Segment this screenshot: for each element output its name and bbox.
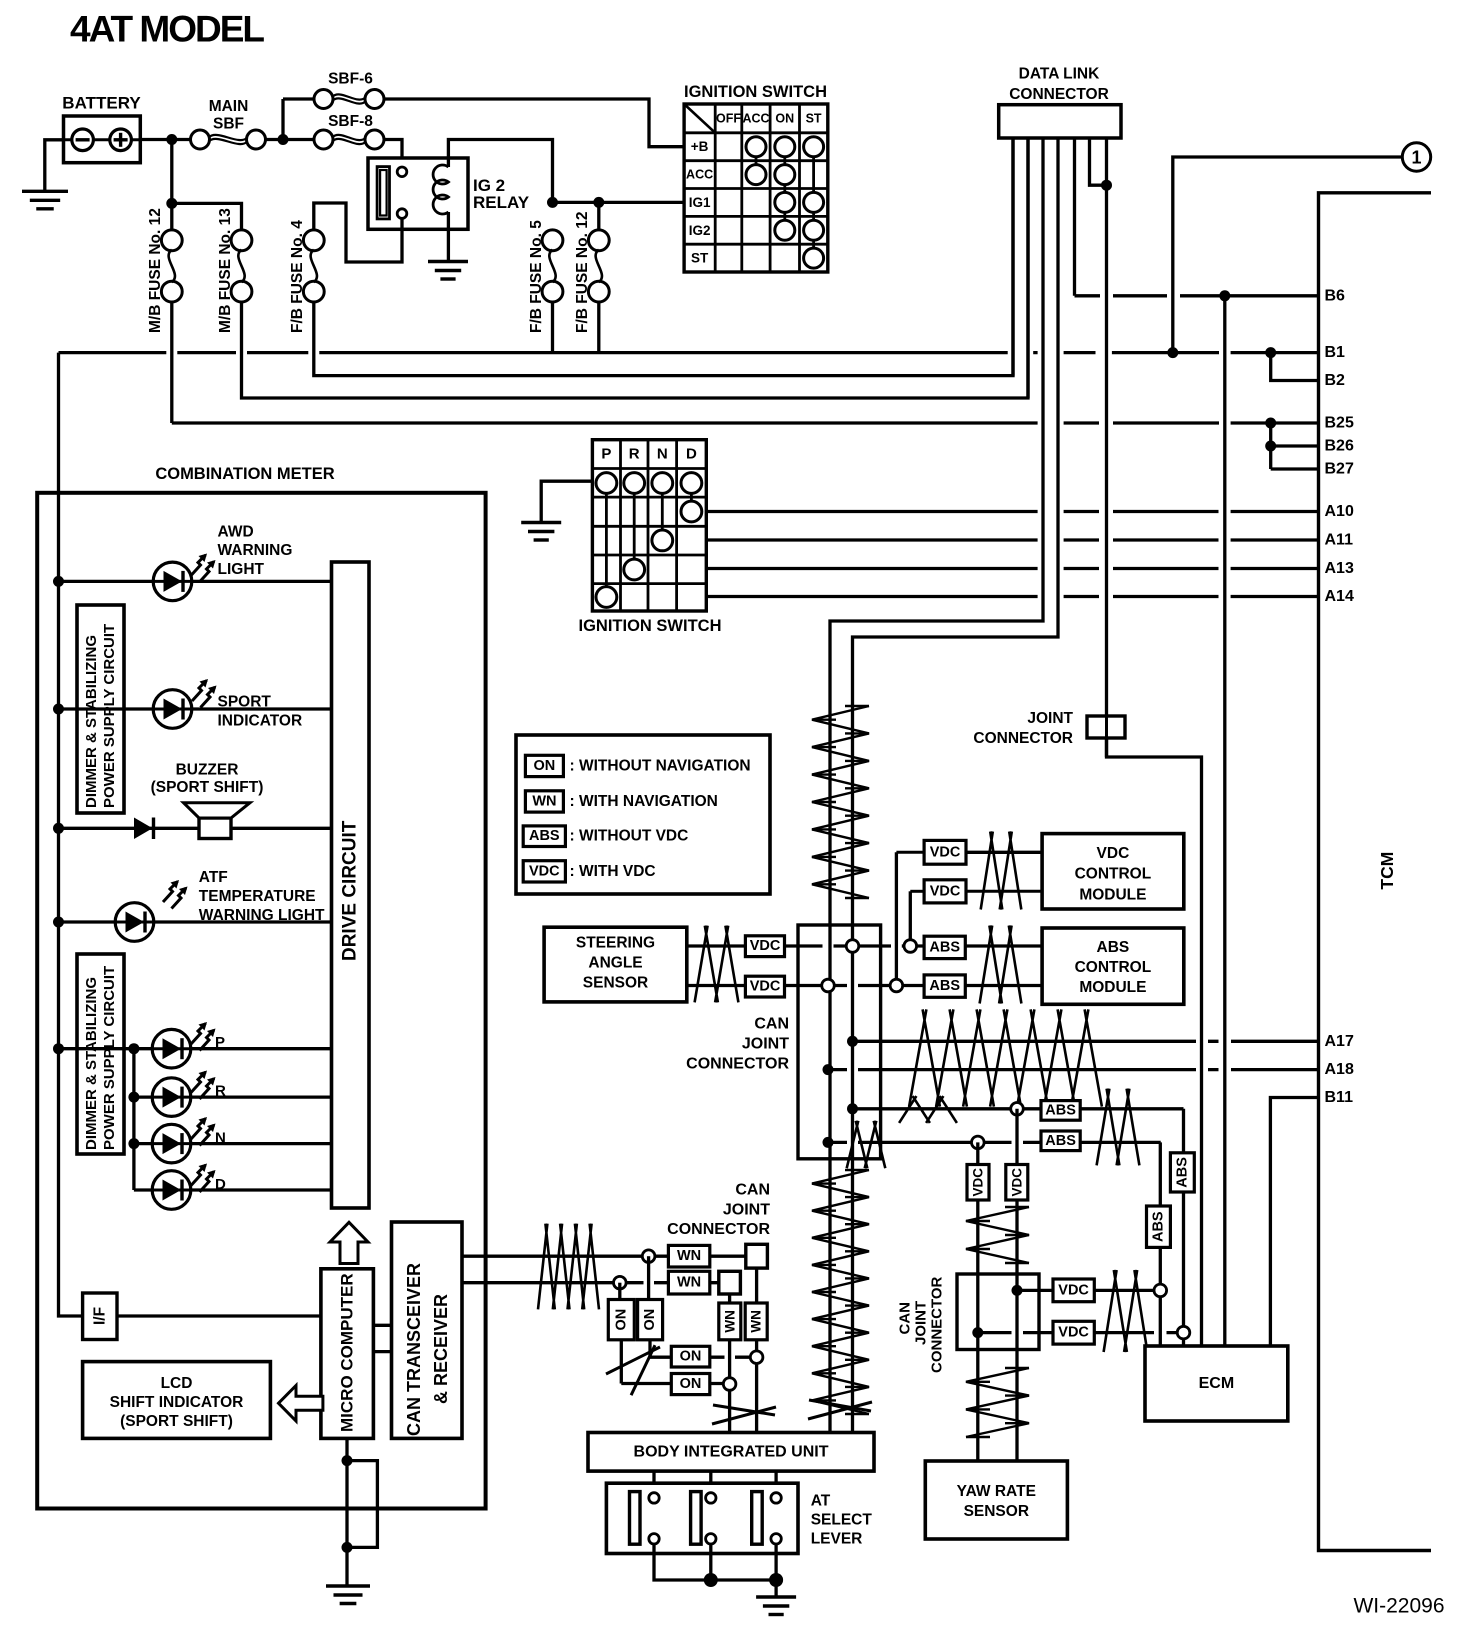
- wire SAS row1: [687, 944, 1042, 947]
- twisted pair yaw lower: [966, 1368, 1029, 1437]
- svg-text:BATTERY: BATTERY: [62, 94, 141, 113]
- wire M/B fuse No.13 to DLC: [242, 138, 1029, 398]
- svg-text:MICRO COMPUTER: MICRO COMPUTER: [338, 1273, 357, 1432]
- wire riser VDC row b: [909, 891, 912, 946]
- wire SBF-6 to ignition switch +B: [384, 99, 684, 147]
- junction F/B fuse No.5 tap: [547, 197, 558, 208]
- svg-text:VDC: VDC: [750, 938, 781, 954]
- wire SPORT row: [59, 707, 332, 710]
- LED AWD warning light: [153, 562, 192, 601]
- WN tag row1: [668, 1245, 709, 1267]
- VDC control module box: [1042, 834, 1184, 909]
- legend box: [516, 735, 770, 894]
- svg-text:ABS: ABS: [1097, 939, 1130, 956]
- ignition switch header diagonal: [684, 104, 715, 133]
- svg-text:A18: A18: [1325, 1061, 1354, 1078]
- junction AWD row: [53, 576, 64, 587]
- svg-text:F/B FUSE No. 5: F/B FUSE No. 5: [528, 220, 545, 333]
- twisted pair VDC ECM rows: [1104, 1270, 1148, 1352]
- DLC pin2 wire: [1026, 138, 1029, 398]
- twisted pair row5 left: [899, 1096, 957, 1123]
- twisted pair row6 left: [847, 1121, 886, 1168]
- wire square2 vertical to BIU: [728, 1294, 731, 1433]
- node 1 circle: [1402, 143, 1430, 171]
- DLC pin6 wire: [1090, 138, 1107, 185]
- TCM connector line: [1319, 193, 1432, 1551]
- svg-text:P: P: [601, 446, 611, 463]
- node ON stub row1: [642, 1250, 655, 1263]
- wire BIU to lever 2: [709, 1471, 712, 1493]
- wire I/F to micro computer: [117, 1314, 321, 1317]
- lever contacts top: [649, 1493, 659, 1503]
- dimmer & stabilizing power supply circuit box 1: [77, 605, 124, 813]
- wire ON stub 1: [647, 1256, 650, 1299]
- wire CAN-L vertical: [851, 704, 854, 1432]
- svg-text:DIMMER & STABILIZING: DIMMER & STABILIZING: [83, 977, 100, 1150]
- svg-text:ABS: ABS: [929, 978, 960, 994]
- wire square1 vertical to BIU: [755, 1268, 758, 1432]
- svg-text:JOINT: JOINT: [723, 1202, 770, 1219]
- svg-text:YAW RATE: YAW RATE: [957, 1483, 1036, 1500]
- node row1 square1: [750, 1351, 763, 1364]
- relay IG 2 box: [368, 158, 468, 229]
- node row5 ECM circle: [1177, 1326, 1190, 1339]
- svg-text:ON: ON: [642, 1309, 658, 1331]
- DLC pin1 wire: [1011, 138, 1014, 376]
- body integrated unit box: [588, 1433, 874, 1472]
- svg-text:IGNITION SWITCH: IGNITION SWITCH: [579, 617, 722, 635]
- wire row6 to ECM: [1159, 1142, 1162, 1346]
- arrows ATF LED: [163, 882, 178, 903]
- ABS tag vertical row5: [1170, 1153, 1194, 1192]
- arrow LCD (left): [279, 1386, 323, 1422]
- svg-text:CONTROL: CONTROL: [1075, 866, 1152, 883]
- junction sub-bus R: [128, 1092, 139, 1103]
- svg-text:STEERING: STEERING: [576, 935, 655, 952]
- junction ATF row: [53, 917, 64, 928]
- arrows N LED: [191, 1119, 206, 1140]
- junction row6 on CAN-H: [823, 1137, 834, 1148]
- ignition switch column links: [755, 147, 758, 175]
- junction ground loop top: [342, 1455, 353, 1466]
- junction B6/ECM branch: [1219, 290, 1230, 301]
- svg-text:VDC: VDC: [1058, 1282, 1089, 1298]
- svg-text:TCM: TCM: [1377, 852, 1397, 890]
- svg-text:ON: ON: [613, 1309, 629, 1331]
- svg-text:P: P: [215, 1034, 225, 1051]
- svg-text:: WITHOUT NAVIGATION: : WITHOUT NAVIGATION: [570, 758, 751, 775]
- drive circuit box: [332, 562, 370, 1208]
- svg-text:ON: ON: [680, 1376, 702, 1392]
- svg-text:B27: B27: [1325, 461, 1354, 478]
- svg-text:ON: ON: [534, 758, 556, 774]
- arrows AWD LED: [191, 555, 206, 576]
- junction DLC pin6/pin7: [1101, 180, 1112, 191]
- battery positive terminal: [110, 129, 132, 151]
- svg-text:R: R: [629, 446, 640, 463]
- wire B1 line: [59, 351, 1319, 354]
- svg-text:ABS: ABS: [1150, 1211, 1166, 1242]
- svg-text:SENSOR: SENSOR: [583, 975, 648, 992]
- svg-text:R: R: [215, 1083, 226, 1100]
- junction A18 on CAN-H: [823, 1064, 834, 1075]
- wire B27 line: [1271, 467, 1319, 470]
- junction A17 on CAN-L: [847, 1036, 858, 1047]
- VDC tag vertical right: [1006, 1165, 1028, 1201]
- VDC tag SAS row1: [745, 936, 784, 957]
- wire row5 to ECM: [1182, 1109, 1185, 1346]
- junction B25 branch: [1265, 418, 1276, 429]
- svg-text:N: N: [657, 446, 668, 463]
- LED P: [152, 1029, 191, 1068]
- wire A11 line: [706, 538, 1318, 541]
- svg-text:COMBINATION METER: COMBINATION METER: [155, 465, 334, 483]
- node row2 square2: [723, 1378, 736, 1391]
- wire B25 line: [172, 421, 1319, 424]
- ON tag vertical 1: [608, 1300, 634, 1340]
- ABS tag vertical row6: [1147, 1206, 1171, 1247]
- ignition switch contacts IG1 row: [775, 192, 795, 212]
- svg-text:ABS: ABS: [1045, 1133, 1076, 1149]
- DLC pin5 wire to B6: [1073, 138, 1076, 296]
- svg-text:CAN: CAN: [897, 1302, 914, 1335]
- dimmer & stabilizing power supply circuit box 2: [77, 954, 124, 1154]
- fuse M/B No.13: [231, 230, 252, 251]
- ground inhibitor: [521, 521, 561, 524]
- wire SBF-8 to relay contact: [384, 140, 402, 168]
- ABS tag row5: [1041, 1101, 1080, 1121]
- svg-text:CONNECTOR: CONNECTOR: [973, 730, 1073, 747]
- svg-text:ST: ST: [691, 251, 709, 266]
- lever slot 3: [752, 1492, 763, 1545]
- svg-text:B6: B6: [1325, 287, 1346, 304]
- wire battery internal: [64, 138, 141, 141]
- svg-text:A10: A10: [1325, 503, 1354, 520]
- svg-text:M/B FUSE No. 13: M/B FUSE No. 13: [217, 208, 234, 333]
- VDC tag vertical left: [967, 1165, 989, 1201]
- svg-text:VDC: VDC: [1058, 1325, 1089, 1341]
- node row6 VDC stub: [972, 1136, 985, 1149]
- wire ABS row5: [853, 1107, 1184, 1110]
- wire ON1 to row2: [620, 1340, 623, 1384]
- wire relay coil to IG1 line: [448, 140, 552, 203]
- svg-text:VDC: VDC: [930, 883, 961, 899]
- svg-text:CONNECTOR: CONNECTOR: [929, 1276, 946, 1373]
- wire joint connector to ECM: [1107, 738, 1202, 1346]
- svg-text:WI-22096: WI-22096: [1353, 1595, 1444, 1618]
- fuse F/B No.5: [542, 230, 563, 251]
- ignition switch contacts ST row: [804, 248, 824, 268]
- DLC pin7 wire: [1105, 138, 1108, 757]
- wire IG1 feed line: [553, 201, 685, 204]
- VDC tag module row a: [924, 840, 966, 864]
- svg-text:CONNECTOR: CONNECTOR: [686, 1056, 789, 1073]
- wire battery to ground: [45, 140, 64, 192]
- wire ECM branch vertical: [1223, 296, 1226, 1346]
- data link connector box: [999, 105, 1121, 138]
- fuse SBF-8: [314, 130, 333, 149]
- ABS control module box: [1042, 928, 1184, 1004]
- wire P row: [59, 1047, 332, 1050]
- junction sub-bus N: [128, 1138, 139, 1149]
- svg-text:ANGLE: ANGLE: [588, 955, 642, 972]
- junction M/B fuse No.13 tap: [166, 198, 177, 209]
- relay contact terminal top: [397, 167, 407, 177]
- svg-text:CAN: CAN: [735, 1182, 770, 1199]
- svg-text:SELECT: SELECT: [811, 1512, 873, 1529]
- arrow drive circuit (up): [330, 1222, 368, 1263]
- svg-text:VDC: VDC: [1009, 1168, 1024, 1197]
- svg-text:: WITHOUT VDC: : WITHOUT VDC: [570, 828, 689, 845]
- legend ABS box: [523, 826, 565, 847]
- twisted pair CAN lower: [812, 1170, 869, 1414]
- wire VDC row to ECM 1: [1017, 1289, 1154, 1292]
- wire A17 line: [853, 1040, 1319, 1043]
- junction joint2 row2: [972, 1327, 983, 1338]
- svg-text:TEMPERATURE: TEMPERATURE: [199, 888, 316, 905]
- wire B25-B26-B27 branch: [1269, 423, 1272, 469]
- wire buzzer row: [59, 827, 332, 830]
- ground relay coil: [428, 260, 468, 263]
- legend VDC box: [523, 861, 565, 882]
- fuse M/B No.12: [161, 230, 182, 251]
- wire B26 line: [1271, 444, 1319, 447]
- svg-text:1: 1: [1411, 148, 1421, 168]
- svg-text:OFF: OFF: [716, 111, 741, 125]
- ON tag row1: [671, 1346, 710, 1367]
- relay coil: [433, 165, 448, 214]
- svg-text:VDC: VDC: [1097, 845, 1130, 862]
- junction F/B fuse No.12 tap: [593, 197, 604, 208]
- arrows SPORT LED: [192, 681, 207, 702]
- fuse MAIN SBF: [191, 130, 210, 149]
- WN tag row2: [668, 1271, 709, 1294]
- junction SBF-6/SBF-8 split: [278, 134, 289, 145]
- wire B2 branch: [1271, 353, 1319, 381]
- wire D row: [134, 1188, 332, 1191]
- DLC pin3 wire to CAN-H: [830, 138, 1043, 704]
- relay contact bar: [377, 167, 389, 219]
- svg-text:A17: A17: [1325, 1033, 1354, 1050]
- svg-text:B26: B26: [1325, 438, 1354, 455]
- wire relay contact to fuse No.4: [314, 203, 402, 262]
- svg-text:BODY INTEGRATED UNIT: BODY INTEGRATED UNIT: [634, 1444, 829, 1461]
- svg-text:VDC: VDC: [750, 979, 781, 995]
- wire SAS row2: [687, 984, 1042, 987]
- svg-text:WN: WN: [749, 1310, 764, 1333]
- svg-text:CAN: CAN: [754, 1016, 789, 1033]
- svg-text:LEVER: LEVER: [811, 1531, 863, 1548]
- svg-text:4AT MODEL: 4AT MODEL: [70, 9, 264, 50]
- ignition switch (inhibitor) grid: [592, 440, 706, 611]
- svg-text:IG2: IG2: [689, 223, 711, 238]
- svg-text:(SPORT SHIFT): (SPORT SHIFT): [120, 1413, 233, 1430]
- svg-text:B11: B11: [1325, 1089, 1354, 1106]
- svg-text:DATA LINK: DATA LINK: [1019, 65, 1100, 82]
- wire inhibitor common to ground: [541, 481, 592, 522]
- wire A10 line: [706, 510, 1318, 513]
- wire yaw right vertical: [1015, 1109, 1018, 1461]
- twisted pair ABS module: [980, 926, 1022, 1004]
- svg-text:POWER SUPPLY CIRCUIT: POWER SUPPLY CIRCUIT: [101, 624, 118, 808]
- wire B6 line: [1075, 294, 1319, 297]
- buzzer speaker: [199, 818, 231, 839]
- AT select lever box: [606, 1483, 798, 1553]
- twisted pair rows56 right: [1097, 1089, 1140, 1166]
- node riser row1: [904, 940, 917, 953]
- wire A18 line: [828, 1068, 1319, 1071]
- wire relay coil to ground: [447, 212, 450, 262]
- wire VDC row to ECM 2: [978, 1331, 1177, 1334]
- relay contact terminal bottom: [397, 209, 407, 219]
- svg-text:M/B FUSE No. 12: M/B FUSE No. 12: [147, 208, 164, 333]
- fuse F/B No.4: [303, 230, 324, 251]
- node SAS row2 / CAN-H: [822, 979, 835, 992]
- wire micro computer to CAN transceiver 1: [373, 1324, 391, 1327]
- svg-text:JOINT: JOINT: [1027, 710, 1073, 727]
- svg-text:DIMMER & STABILIZING: DIMMER & STABILIZING: [83, 635, 100, 808]
- lever contacts bottom: [649, 1534, 659, 1544]
- svg-text:AT: AT: [811, 1492, 831, 1509]
- LED SPORT indicator: [153, 690, 192, 729]
- junction battery output: [166, 134, 177, 145]
- VDC tag ECM row2: [1053, 1321, 1094, 1344]
- legend WN box: [525, 791, 563, 812]
- svg-text:MAIN: MAIN: [209, 98, 249, 115]
- lever slot 2: [691, 1492, 702, 1545]
- inhibitor contact R: [624, 559, 645, 580]
- wire ON row2: [621, 1382, 724, 1385]
- LED ATF warning: [115, 903, 154, 942]
- node riser row2: [890, 979, 903, 992]
- svg-text:CONNECTOR: CONNECTOR: [667, 1221, 770, 1238]
- wire ATF row: [59, 920, 332, 923]
- wire BIU to lever 3: [774, 1471, 777, 1493]
- joint connector box: [1087, 716, 1125, 738]
- WN tag vertical 1: [745, 1303, 767, 1340]
- junction B26 branch: [1265, 441, 1276, 452]
- inhibitor contacts row1: [596, 473, 617, 494]
- LED R: [152, 1078, 191, 1117]
- svg-text:ON: ON: [680, 1349, 702, 1365]
- svg-text:WN: WN: [722, 1310, 737, 1333]
- svg-text:CONNECTOR: CONNECTOR: [1009, 86, 1109, 103]
- svg-text:ECM: ECM: [1199, 1375, 1235, 1392]
- junction row5 on CAN-L: [847, 1103, 858, 1114]
- svg-text:SBF-8: SBF-8: [328, 113, 373, 130]
- junction node1 to B1: [1167, 347, 1178, 358]
- arrows R LED: [191, 1072, 206, 1093]
- svg-text:B2: B2: [1325, 372, 1346, 389]
- ignition switch contacts ACC row: [746, 165, 766, 185]
- svg-text:LCD: LCD: [161, 1375, 193, 1392]
- svg-text:IGNITION SWITCH: IGNITION SWITCH: [684, 83, 827, 101]
- svg-text:A14: A14: [1325, 588, 1354, 605]
- ground micro computer: [326, 1584, 370, 1587]
- ABS tag row1: [924, 936, 965, 958]
- diode buzzer: [134, 818, 153, 840]
- svg-text:VDC: VDC: [971, 1168, 986, 1197]
- svg-text:CONTROL: CONTROL: [1075, 959, 1152, 976]
- VDC tag SAS row2: [745, 976, 784, 997]
- CAN joint square 2: [719, 1271, 741, 1294]
- wire meter supply bus: [59, 353, 83, 1316]
- svg-text:POWER SUPPLY CIRCUIT: POWER SUPPLY CIRCUIT: [101, 966, 118, 1150]
- wire riser VDC row a: [924, 851, 1042, 854]
- inhibitor contact N: [652, 530, 673, 551]
- ignition switch contacts IG2 row: [775, 220, 795, 240]
- crossing slash B2: [808, 1402, 872, 1419]
- ground AT select lever: [756, 1595, 796, 1598]
- svg-text:DRIVE CIRCUIT: DRIVE CIRCUIT: [340, 820, 361, 961]
- svg-text:N: N: [215, 1130, 226, 1147]
- svg-text:ON: ON: [775, 111, 794, 125]
- wire micro computer to CAN transceiver 2: [373, 1350, 391, 1353]
- ignition switch table: [684, 104, 828, 272]
- I/F box: [83, 1293, 117, 1340]
- VDC tag ECM row1: [1053, 1279, 1094, 1302]
- svg-text:B25: B25: [1325, 415, 1354, 432]
- svg-text:MODULE: MODULE: [1079, 979, 1146, 996]
- svg-text:: WITH NAVIGATION: : WITH NAVIGATION: [570, 793, 718, 810]
- node SAS row1 / CAN-L: [846, 940, 859, 953]
- wire B11 line: [1270, 1098, 1318, 1347]
- wire ABS row6: [828, 1141, 1161, 1144]
- svg-text:I/F: I/F: [92, 1307, 109, 1325]
- inhibitor contact D: [681, 501, 702, 522]
- svg-text:WN: WN: [677, 1275, 701, 1291]
- wire battery to M/B fuse No.12: [170, 140, 173, 231]
- svg-text:VDC: VDC: [930, 844, 961, 860]
- ON tag row2: [671, 1374, 710, 1395]
- svg-text:MODULE: MODULE: [1079, 887, 1146, 904]
- wire ON stub 2: [618, 1283, 621, 1300]
- ground battery: [22, 190, 68, 193]
- node 1 wire: [1173, 157, 1403, 353]
- steering angle sensor box: [544, 927, 687, 1002]
- twisted pair yaw upper: [966, 1207, 1029, 1263]
- inhibitor contact P: [596, 587, 617, 608]
- svg-text:JOINT: JOINT: [913, 1301, 930, 1345]
- junction buzzer row: [53, 823, 64, 834]
- battery negative terminal: [72, 129, 94, 151]
- svg-text:SBF-6: SBF-6: [328, 71, 373, 88]
- wire F/B fuse No.4 to DLC: [314, 138, 1013, 376]
- svg-text:F/B FUSE No. 4: F/B FUSE No. 4: [289, 220, 306, 333]
- wire micro computer ground: [345, 1438, 348, 1586]
- twisted pair SAS: [695, 926, 739, 1003]
- svg-text:ABS: ABS: [529, 828, 560, 844]
- arrows D LED: [191, 1165, 206, 1186]
- ABS tag row6: [1041, 1131, 1080, 1151]
- svg-text:WN: WN: [677, 1248, 701, 1264]
- node ON stub row2: [614, 1276, 627, 1289]
- wire lever commons to ground: [654, 1544, 776, 1580]
- svg-text:BUZZER: BUZZER: [176, 762, 239, 779]
- svg-text:SPORT: SPORT: [218, 694, 272, 711]
- wire ON row1: [650, 1356, 752, 1359]
- svg-text:JOINT: JOINT: [742, 1036, 789, 1053]
- svg-text:RELAY: RELAY: [473, 193, 530, 212]
- svg-text:ABS: ABS: [929, 939, 960, 955]
- yaw rate sensor box: [925, 1461, 1067, 1539]
- svg-text:ABS: ABS: [1174, 1157, 1190, 1188]
- svg-text:VDC: VDC: [529, 863, 560, 879]
- twisted pair A17/A18: [909, 1009, 1102, 1106]
- twisted pair CAN upper: [812, 706, 869, 898]
- ECM box: [1145, 1346, 1288, 1421]
- CAN joint connector 2 box: [957, 1274, 1039, 1350]
